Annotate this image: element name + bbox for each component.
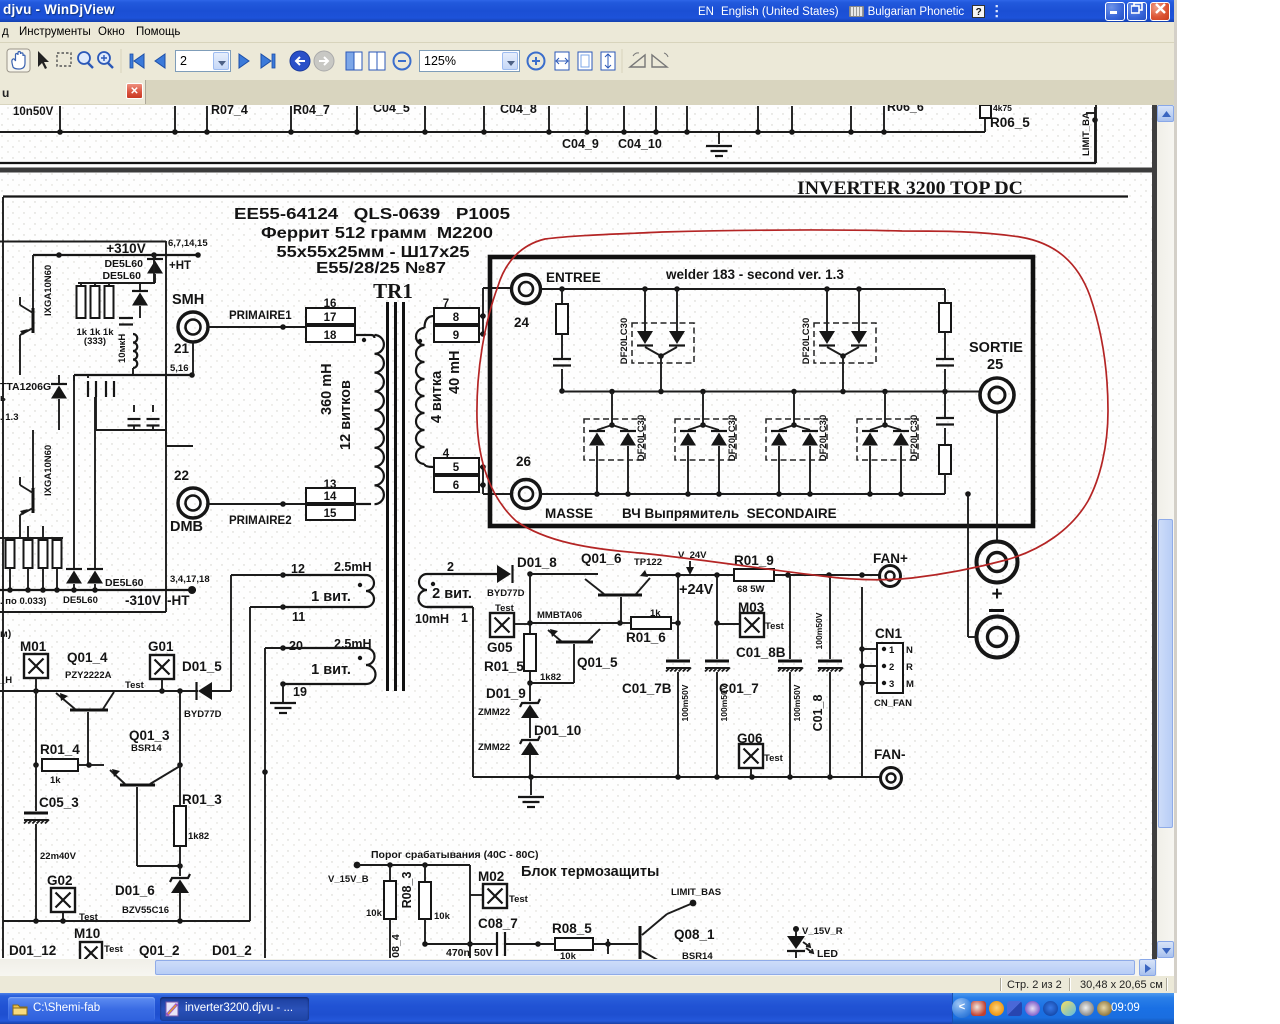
wire SMH to PRIMAIRE1	[208, 326, 306, 328]
svg-text:TP122: TP122	[634, 557, 662, 568]
ground regulator	[530, 777, 532, 795]
svg-text:. по 0.033): . по 0.033)	[0, 596, 46, 607]
svg-text:1k82: 1k82	[188, 831, 209, 842]
svg-text:Q08_1: Q08_1	[674, 927, 715, 942]
svg-text:CN1: CN1	[875, 626, 902, 641]
svg-text:_H: _H	[0, 675, 12, 686]
svg-text:D01_6: D01_6	[115, 883, 155, 898]
svg-text:Порог срабатывания (40С - 80С): Порог срабатывания (40С - 80С)	[371, 849, 538, 861]
phase dot primary	[362, 338, 366, 342]
terminal ENTREE 24	[512, 275, 541, 304]
svg-text:C05_3: C05_3	[39, 795, 79, 810]
svg-text:G05: G05	[487, 640, 513, 655]
terminal MASSE 26	[512, 480, 541, 509]
svg-text:M01: M01	[20, 639, 47, 654]
svg-text:15: 15	[324, 508, 337, 520]
svg-text:ENTREE: ENTREE	[546, 270, 601, 285]
svg-text:D01_2: D01_2	[212, 943, 252, 958]
svg-text:C04_5: C04_5	[373, 105, 410, 115]
svg-text:DF20LC30: DF20LC30	[636, 415, 647, 461]
svg-text:1: 1	[889, 645, 895, 656]
svg-text:FAN-: FAN-	[874, 747, 906, 762]
svg-text:6: 6	[453, 480, 459, 492]
svg-text:1: 1	[461, 611, 468, 625]
svg-text:25: 25	[987, 357, 1003, 373]
svg-text:2 вит.: 2 вит.	[432, 586, 472, 602]
capacitor C01_8 100m50V	[829, 575, 831, 659]
svg-text:12 витков: 12 витков	[338, 380, 354, 450]
svg-text:BSR14: BSR14	[131, 743, 162, 754]
svg-text:Test: Test	[125, 680, 145, 691]
wire bottom rail y920	[3, 920, 250, 922]
svg-text:C04_10: C04_10	[618, 137, 662, 151]
svg-text:22m40V: 22m40V	[40, 851, 77, 862]
svg-text:DE5L60: DE5L60	[63, 595, 98, 606]
svg-text:Q01_3: Q01_3	[129, 728, 170, 743]
svg-text:R01_6: R01_6	[626, 630, 666, 645]
svg-text:D01_9: D01_9	[486, 686, 526, 701]
zoom minus	[394, 53, 411, 70]
svg-text:+HT: +HT	[169, 260, 191, 272]
svg-text:IXGA10N60: IXGA10N60	[43, 265, 54, 316]
facing layout	[369, 52, 377, 70]
rotate right	[652, 55, 667, 67]
wire DMB to PRIMAIRE2	[208, 503, 306, 505]
svg-text:Q01_5: Q01_5	[577, 655, 618, 670]
svg-text:+24V: +24V	[679, 582, 714, 598]
hand tool button	[7, 49, 30, 72]
svg-text:Test: Test	[509, 894, 529, 905]
rect select tool	[57, 53, 71, 66]
svg-text:C01_7: C01_7	[719, 681, 759, 696]
back nav	[290, 51, 310, 71]
fit height	[601, 52, 615, 70]
svg-text:-310V: -310V	[125, 593, 161, 608]
svg-text:DF20LC30: DF20LC30	[818, 415, 829, 461]
wire stubs page1	[60, 106, 884, 132]
node -HT	[188, 586, 196, 594]
svg-text:68 5W: 68 5W	[737, 584, 764, 595]
svg-text:6,7,14,15: 6,7,14,15	[168, 238, 208, 249]
svg-text:LED: LED	[817, 948, 838, 959]
svg-text:DE5L60: DE5L60	[104, 258, 143, 270]
svg-text:10k: 10k	[366, 908, 383, 919]
svg-text:MMBTA06: MMBTA06	[537, 610, 582, 621]
svg-text:TR1: TR1	[373, 279, 413, 303]
wire base rail Q01_5	[529, 574, 531, 683]
wire winding11 down	[250, 606, 283, 608]
phase dot secondary	[418, 339, 422, 343]
wire vertical x154	[153, 255, 155, 283]
svg-text:INVERTER 3200 TOP DC: INVERTER 3200 TOP DC	[797, 178, 1023, 199]
svg-text:R01_5: R01_5	[484, 659, 524, 674]
wire boxes 8 9 to ENTREE	[479, 315, 483, 317]
diode pair DF20LC30 bottom 4	[857, 391, 918, 494]
svg-text:TTA1206G: TTA1206G	[0, 381, 51, 393]
wire top rail to FAN+	[530, 573, 598, 575]
svg-text:LIMIT_BAS: LIMIT_BAS	[671, 887, 721, 898]
resistor 1k bank	[80, 283, 82, 286]
svg-text:ZMM22: ZMM22	[478, 707, 510, 718]
svg-text:1 вит.: 1 вит.	[311, 589, 351, 605]
svg-text:21: 21	[174, 341, 190, 356]
diode pair DF20LC30 top 1	[632, 289, 694, 391]
wire bottom bus	[541, 493, 945, 495]
wire SORTIE to plus terminal	[996, 412, 998, 541]
svg-text:+310V: +310V	[106, 241, 145, 256]
wire thermal right vertical	[469, 865, 471, 958]
svg-text:D01_12: D01_12	[9, 943, 56, 958]
svg-text:C01_8B: C01_8B	[736, 645, 786, 660]
svg-text:R: R	[906, 662, 913, 673]
svg-text:BSR14: BSR14	[682, 951, 713, 959]
wire main rail y690	[0, 690, 198, 692]
svg-text:Test: Test	[765, 621, 785, 632]
svg-text:C04_9: C04_9	[562, 137, 599, 151]
rail lower	[96, 429, 166, 431]
svg-text:DE5L60: DE5L60	[105, 577, 144, 589]
svg-text:ZMM22: ZMM22	[478, 742, 510, 753]
svg-text:DF20LC30: DF20LC30	[727, 415, 738, 461]
junction dots page1 bus	[57, 129, 887, 135]
svg-text:DE5L60: DE5L60	[102, 270, 141, 282]
svg-text:10мкH: 10мкH	[117, 334, 128, 363]
svg-text:C04_8: C04_8	[500, 105, 537, 116]
transformer secondary coil 40mH	[416, 328, 425, 464]
svg-text:3,4,17,18: 3,4,17,18	[170, 574, 210, 585]
wire caps to rail	[95, 397, 97, 430]
svg-text:R08_5: R08_5	[552, 921, 592, 936]
svg-text:V_15V_B: V_15V_B	[328, 874, 369, 885]
ground page1	[718, 132, 720, 144]
svg-text:D01_10: D01_10	[534, 723, 581, 738]
svg-text:Блок термозащиты: Блок термозащиты	[521, 864, 659, 880]
zoom plus	[528, 53, 545, 70]
capacitor pair B	[128, 418, 141, 420]
svg-text:-HT: -HT	[167, 593, 190, 608]
svg-text:LIMIT_BA: LIMIT_BA	[1081, 112, 1092, 156]
svg-text:1k: 1k	[50, 775, 61, 786]
title rule	[3, 195, 1128, 197]
svg-text:M10: M10	[74, 926, 100, 941]
wire thermal top rail	[357, 864, 470, 866]
svg-text:470n: 470n	[446, 947, 470, 959]
svg-text:м): м)	[0, 628, 11, 640]
svg-text:5: 5	[453, 462, 460, 474]
svg-text:Q01_2: Q01_2	[139, 943, 180, 958]
wire winding20 down	[265, 647, 283, 649]
svg-text:100m50V: 100m50V	[680, 684, 690, 721]
svg-text:19: 19	[293, 685, 307, 699]
svg-text:1k82: 1k82	[540, 672, 561, 683]
svg-text:FAN+: FAN+	[873, 551, 908, 566]
resistor bank bottom left	[0, 537, 63, 539]
zoom out tool	[78, 52, 90, 64]
transformer primary coil 360mH	[355, 334, 371, 336]
svg-text:EE55-64124 QLS-0639 P1005: EE55-64124 QLS-0639 P1005	[234, 206, 510, 223]
single page layout	[346, 52, 354, 70]
svg-text:4k75: 4k75	[993, 105, 1012, 113]
svg-text:C01_7B: C01_7B	[622, 681, 672, 696]
capacitor C01_7C 100m50V	[789, 575, 791, 659]
svg-text:20: 20	[289, 639, 303, 653]
rotate left	[630, 55, 645, 67]
svg-text:G01: G01	[148, 639, 174, 654]
fit width	[555, 52, 569, 70]
capacitor C01_7 100m50V	[716, 575, 718, 659]
svg-text:Test: Test	[764, 753, 784, 764]
svg-text:N: N	[906, 645, 913, 656]
svg-text:18: 18	[324, 330, 337, 342]
page separator	[0, 168, 1157, 173]
svg-text:3: 3	[889, 679, 894, 690]
first page	[134, 54, 144, 68]
svg-text:5,16: 5,16	[170, 363, 189, 374]
svg-text:MASSE: MASSE	[545, 506, 593, 521]
resistor R08_4 10k	[389, 865, 391, 881]
svg-text:R08_3: R08_3	[400, 872, 414, 909]
wire page1 bottom bus	[0, 131, 985, 133]
svg-text:SMH: SMH	[172, 292, 204, 308]
diode pair DF20LC30 bottom 1	[584, 391, 645, 494]
svg-text:Феррит 512 грамм М2200: Феррит 512 грамм М2200	[261, 225, 493, 242]
svg-text:24: 24	[514, 315, 530, 330]
svg-text:ВЧ Выпрямитель SECONDAIRE: ВЧ Выпрямитель SECONDAIRE	[622, 506, 837, 521]
svg-text:PZY2222A: PZY2222A	[65, 670, 112, 681]
wire MASSE to minus terminal	[965, 491, 971, 497]
svg-text:ь: ь	[0, 393, 6, 404]
svg-text:PRIMAIRE2: PRIMAIRE2	[229, 515, 292, 527]
svg-text:V_15V_R: V_15V_R	[802, 926, 843, 937]
svg-text:11: 11	[292, 610, 305, 624]
svg-text:PRIMAIRE1: PRIMAIRE1	[229, 310, 292, 322]
capacitor small	[119, 317, 133, 319]
zener D01_6 BZV55C16	[170, 874, 190, 882]
wire left verticals	[73, 375, 75, 567]
wire top bus	[541, 288, 945, 290]
svg-text:R06_6: R06_6	[887, 105, 924, 114]
transformer core	[386, 302, 389, 691]
wire winding1 return rail	[427, 606, 473, 608]
svg-text:Q01_6: Q01_6	[581, 551, 622, 566]
next page	[239, 54, 249, 68]
svg-text:26: 26	[516, 454, 532, 469]
svg-text:22: 22	[174, 468, 189, 483]
svg-text:+: +	[991, 584, 1002, 605]
svg-text:10n50V: 10n50V	[13, 106, 54, 118]
select text tool	[38, 51, 49, 69]
svg-text:E55/28/25 №87: E55/28/25 №87	[316, 260, 446, 277]
svg-text:360 mH: 360 mH	[319, 363, 335, 415]
svg-text:M: M	[906, 679, 914, 690]
terminal plus output	[977, 542, 1018, 583]
fit page	[578, 52, 592, 70]
svg-text:BZV55C16: BZV55C16	[122, 905, 169, 916]
svg-text:C08_7: C08_7	[478, 916, 518, 931]
svg-text:2: 2	[447, 560, 454, 574]
svg-text:2.5mH: 2.5mH	[334, 560, 372, 574]
capacitor resistor column left	[561, 289, 563, 304]
svg-text:4 витка: 4 витка	[429, 370, 445, 423]
rail -310V	[0, 589, 196, 591]
diode DE5L60 top	[154, 255, 156, 259]
svg-text:9: 9	[453, 330, 459, 342]
diode DE5L60 neg2	[94, 567, 96, 569]
fwd nav (disabled)	[314, 51, 334, 71]
terminal minus output	[989, 609, 1004, 612]
svg-text:10k: 10k	[560, 951, 577, 959]
svg-text:CN_FAN: CN_FAN	[874, 698, 912, 709]
diode pair DF20LC30 bottom 3	[766, 391, 827, 494]
page1 frame bottom	[0, 162, 1096, 164]
svg-text:1 вит.: 1 вит.	[311, 662, 351, 678]
wire boxes 5 6 to MASSE	[479, 466, 483, 468]
left block frame	[0, 241, 166, 243]
svg-text:DF20LC30: DF20LC30	[619, 318, 630, 364]
svg-text:M02: M02	[478, 869, 504, 884]
diode DE5L60 third	[58, 375, 60, 384]
resistor R06_5	[984, 117, 986, 132]
svg-text:Q01_4: Q01_4	[67, 650, 108, 665]
node +HT	[195, 252, 201, 258]
terminal DMB	[165, 375, 167, 446]
svg-text:DF20LC30: DF20LC30	[909, 415, 920, 461]
svg-text:DMB: DMB	[170, 519, 203, 535]
zoom in tool	[98, 52, 110, 64]
svg-text:08_4: 08_4	[390, 934, 402, 958]
wire winding12 to D01_5 branch	[231, 574, 283, 576]
welder block border	[490, 257, 1033, 526]
diode pair DF20LC30 top 2	[814, 289, 876, 391]
rail +310V	[33, 254, 198, 256]
diode DE5L60 neg1	[73, 567, 75, 569]
svg-text:BYD77D: BYD77D	[487, 588, 525, 599]
svg-text:DF20LC30: DF20LC30	[801, 318, 812, 364]
svg-text:D01_8: D01_8	[517, 555, 557, 570]
diode pair DF20LC30 bottom 2	[675, 391, 736, 494]
svg-text:C01_8: C01_8	[811, 695, 825, 732]
capacitor C01_7B 100m50V	[677, 575, 679, 659]
svg-text:8: 8	[453, 312, 460, 324]
capacitor pair A	[87, 381, 89, 397]
svg-text:IXGA10N60: IXGA10N60	[43, 445, 54, 496]
svg-text:50V: 50V	[474, 947, 493, 959]
svg-text:R01_4: R01_4	[40, 742, 80, 757]
svg-text:55х55х25мм - Ш17х25: 55х55х25мм - Ш17х25	[277, 244, 470, 261]
svg-text:G02: G02	[47, 873, 73, 888]
svg-text:40 mH: 40 mH	[447, 350, 463, 394]
resistor capacitor column right	[944, 289, 946, 303]
svg-text:R06_5: R06_5	[990, 115, 1030, 130]
annotation red ellipse	[477, 230, 1108, 580]
prev page	[155, 54, 165, 68]
svg-text:D01_5: D01_5	[182, 659, 222, 674]
svg-text:R04_7: R04_7	[293, 105, 330, 117]
svg-text:SORTIE: SORTIE	[969, 340, 1023, 356]
svg-text:BYD77D: BYD77D	[184, 709, 222, 720]
svg-text:17: 17	[324, 312, 337, 324]
svg-text:100m50V: 100m50V	[792, 684, 802, 721]
last page	[261, 54, 271, 68]
svg-text:14: 14	[324, 491, 337, 503]
svg-text:Test: Test	[104, 944, 124, 955]
wire mid bus	[562, 391, 980, 393]
svg-text:100m50V: 100m50V	[814, 612, 824, 649]
page2 left border	[2, 197, 4, 958]
svg-text:(333): (333)	[84, 336, 106, 347]
rail 5,16	[74, 374, 193, 376]
svg-text:R01_3: R01_3	[182, 792, 222, 807]
svg-text:10mH: 10mH	[415, 612, 449, 626]
svg-text:2: 2	[889, 662, 894, 673]
svg-text:10k: 10k	[434, 911, 451, 922]
wire sub-rail	[78, 282, 155, 284]
svg-text:welder 183 - second ver. 1.3: welder 183 - second ver. 1.3	[665, 267, 844, 282]
svg-text:. 1.3: . 1.3	[0, 412, 19, 423]
svg-text:R07_4: R07_4	[211, 105, 248, 117]
